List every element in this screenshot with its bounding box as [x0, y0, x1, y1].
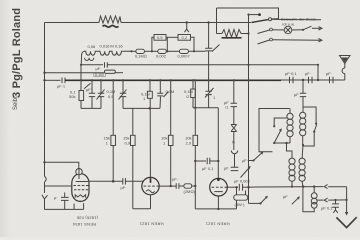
node top bus x208	[207, 21, 209, 23]
trimmer arrow top	[212, 45, 220, 52]
left vertical bus	[44, 23, 46, 176]
capacitor C tuning top bars	[205, 48, 212, 51]
label 0.1M boxed	[94, 73, 106, 76]
resistor R x112 box	[111, 135, 116, 145]
rail x134	[132, 108, 134, 135]
resistor box 0.2	[178, 35, 191, 41]
plug lower cup	[324, 198, 327, 202]
rail x208 from top bus	[208, 23, 210, 49]
arrow tip row2	[319, 27, 322, 30]
node bus x150	[149, 79, 151, 81]
resistor R x134 box	[131, 135, 136, 145]
tube V1 grid dashes row2	[74, 189, 88, 191]
wire chain 2	[166, 50, 179, 52]
wire node to cap	[335, 200, 337, 204]
rail x193 stub	[192, 80, 194, 88]
wire lamp to switch	[292, 29, 303, 31]
rail x161	[159, 80, 161, 93]
wire grid return to V1	[45, 185, 72, 187]
node y65 x81	[80, 64, 82, 66]
wire stub x248 top	[249, 14, 260, 16]
wire below R x196	[194, 146, 196, 209]
arrowhead arm T1 bottom	[260, 151, 263, 154]
wire field top lead	[313, 187, 315, 193]
arrowhead arm bottom	[265, 196, 268, 199]
band switch arm 1	[252, 20, 269, 23]
node T2 col1 y186	[291, 186, 293, 188]
contact top right switch	[315, 123, 317, 125]
node x248 y80	[247, 79, 249, 81]
contact circle 3	[270, 38, 273, 41]
node bus x169	[170, 79, 172, 81]
wire x303 down	[302, 80, 304, 93]
wire top bus right	[121, 22, 251, 24]
wire cathode line y209	[195, 208, 236, 210]
T1 switch arm	[273, 142, 275, 144]
node T2 link	[285, 142, 287, 144]
switch arm bottom left of T1	[252, 159, 254, 161]
node corner	[346, 199, 348, 201]
label 1826 flipped	[76, 216, 98, 221]
T1 winding column 1	[287, 109, 293, 144]
wire riser x318 to y65	[317, 65, 319, 80]
wire bottom loop	[303, 187, 314, 212]
transformer T2 winding column 1	[289, 155, 295, 187]
label REN 1821 flipped 2	[205, 222, 230, 227]
resistor R x193 box	[191, 89, 196, 98]
wire heater coil left stub	[217, 33, 223, 35]
wire ladder right riser	[191, 37, 195, 51]
node bus x92	[91, 79, 93, 81]
node x303 y186	[302, 185, 304, 187]
capacitor C x101	[98, 93, 104, 96]
rail x169	[170, 80, 172, 135]
node T1 col1 bottom	[285, 142, 287, 144]
capacitor C coupling V2-V3	[176, 183, 179, 189]
node x303 y145	[302, 144, 304, 146]
resistor R staple box	[234, 195, 248, 200]
field coil column	[311, 193, 317, 208]
jack cup x234	[231, 151, 237, 154]
switch dot row2	[302, 29, 304, 31]
speaker chevron	[336, 217, 356, 227]
contact circle 2	[270, 28, 273, 31]
T2 col1 top lead	[287, 143, 293, 155]
rail x218 anode V3	[217, 108, 219, 179]
inductor heater winding zigzag	[222, 30, 241, 38]
jack fork lower on left bus	[42, 189, 48, 209]
wire link y108 to x161	[123, 107, 160, 109]
tube V1 anode plate	[76, 181, 88, 183]
coil primary under-row	[85, 58, 94, 61]
wire bus y80 thin right	[281, 79, 289, 81]
tube V2 bottom lead	[133, 195, 151, 209]
wire T1 col1 bottom link	[274, 142, 290, 144]
node riser mid	[166, 50, 168, 52]
tube V3 cathode bar	[214, 191, 222, 193]
switch arm label arrow	[292, 197, 299, 204]
node bus x101	[100, 79, 102, 81]
wire below R x169	[170, 146, 172, 187]
node x218 y161	[217, 160, 219, 162]
capacitor C gridleak bars	[61, 193, 69, 210]
coil left hook	[81, 51, 84, 65]
node x249 y187	[247, 186, 249, 188]
wire main bus y80 thin left	[45, 79, 61, 81]
node bus x81	[80, 79, 82, 81]
wire after plug upper	[328, 186, 346, 188]
lamp pilot circle	[284, 26, 292, 34]
wire resistor to rail	[192, 185, 196, 187]
node x248 top	[247, 14, 249, 16]
wire chain end	[188, 50, 205, 52]
wire heater top rect	[217, 8, 279, 18]
wire heater coil right stub	[241, 33, 249, 35]
node coil out	[130, 50, 132, 52]
plug upper cup	[324, 185, 327, 189]
switch arm bottom middle	[259, 202, 261, 204]
node bus x161	[159, 79, 161, 81]
node y187 x236	[235, 186, 237, 188]
wire below C x161 to link	[159, 97, 162, 109]
node bus x303	[302, 79, 304, 81]
antenna triangle	[340, 56, 351, 64]
T1 winding column 2	[300, 112, 306, 145]
capacitor C series 1	[290, 77, 294, 84]
label RENS 1834 flipped	[72, 222, 96, 227]
wire row2 end	[312, 27, 321, 29]
fork x186	[185, 29, 189, 32]
tube V1 cathode	[75, 195, 85, 198]
capacitor C x208 bars	[205, 91, 211, 94]
resistor R 0.0007 box	[180, 49, 189, 53]
rail x234	[233, 80, 235, 103]
wire right switch top	[303, 107, 316, 124]
wire y73 right of resistor	[115, 72, 123, 74]
wire after plug lower	[328, 199, 346, 201]
arm diag T1 bottom	[254, 152, 263, 160]
node bus x186	[186, 21, 188, 23]
capacitor C coupling V1-V2	[123, 178, 126, 184]
wire below R x134	[132, 146, 134, 209]
wire link1 y108	[81, 107, 101, 109]
node x248 y33	[247, 32, 249, 34]
node riser x318	[317, 79, 319, 81]
node x196 y186	[194, 185, 196, 187]
capacitor C x123	[120, 93, 126, 96]
arrowhead trimmer	[248, 166, 251, 170]
tube V3 grid dashes	[212, 186, 228, 188]
wire V1 anode to junction	[88, 180, 123, 182]
wire below X x234	[233, 132, 235, 151]
capacitor C speaker	[332, 204, 339, 207]
arrowhead down	[345, 212, 348, 216]
node x196 y161	[194, 160, 196, 162]
tube V1 RENS1834 envelope	[72, 174, 89, 202]
arrow tip row3	[319, 39, 322, 42]
wire cup to cap	[234, 154, 236, 167]
tube V2 REN1821 envelope	[142, 177, 159, 194]
tube V3 REN1821 envelope	[210, 178, 228, 196]
node bus x208	[207, 79, 209, 81]
tube V1 legs	[74, 203, 84, 209]
node grid junction left	[43, 161, 45, 163]
tube V1 grid dashes	[73, 185, 88, 187]
node left bus y80	[43, 79, 45, 81]
wire chain	[144, 50, 157, 52]
var arrow x123	[119, 90, 127, 100]
trimmer arrow low	[241, 167, 251, 178]
resistor R x196 box	[193, 135, 198, 145]
wire bottom left horizontal	[44, 208, 83, 210]
rail x150 anode V2	[149, 80, 151, 92]
rail x112 long to V1 anode	[112, 80, 114, 181]
rail x92	[91, 80, 93, 93]
wire down right	[346, 187, 348, 213]
resistor R cathode box x81	[79, 91, 84, 101]
resistor X shape x234	[231, 125, 237, 132]
wire ladder left riser	[152, 37, 154, 51]
wire x249 below	[248, 187, 250, 203]
var arrow x161	[164, 92, 169, 98]
node left bus y73	[43, 72, 45, 74]
core bar heater winding	[222, 37, 242, 39]
coil winding dips	[84, 51, 131, 55]
wire row3	[272, 39, 320, 41]
wire arm feed	[249, 202, 261, 204]
tube V1 grid lead	[78, 169, 80, 180]
node field top	[313, 185, 315, 187]
wire below R x193	[192, 98, 194, 108]
tube V2 grid dashes	[144, 185, 160, 187]
wire grid feed V3 y161	[195, 160, 206, 162]
capacitor C x161	[157, 93, 163, 96]
paper grain	[0, 0, 1, 1]
wire grid line to V1 top cap	[45, 162, 79, 168]
node x248 y65	[247, 64, 249, 66]
wire y73 line	[45, 72, 105, 74]
capacitor C x234 low	[231, 167, 239, 170]
tube V3 bottom lead	[217, 196, 219, 209]
jack gap upper on left bus	[45, 175, 47, 189]
wire coil to resistor chain	[132, 50, 136, 52]
trimmer arrow x208	[205, 88, 214, 98]
capacitor C series 3	[330, 77, 334, 84]
wire below R x150	[149, 98, 151, 177]
rail x123	[122, 80, 124, 93]
switch arm right of T1	[313, 131, 315, 133]
wire ladder mid riser	[166, 37, 168, 51]
band switch arm 3	[258, 40, 270, 44]
antenna lead loop	[342, 68, 345, 74]
wire y65 line right	[108, 64, 319, 66]
wire rect bottom to contact1	[272, 18, 279, 20]
rail x81	[80, 65, 82, 91]
wire field tap	[317, 199, 324, 201]
wire cap to x218	[210, 160, 219, 162]
wire ladder mid	[166, 36, 178, 38]
wire V3 plate out	[227, 186, 238, 188]
wire staple to cathode line	[236, 200, 238, 209]
switch arm row2	[303, 26, 312, 30]
inductor L2 coupling winding	[103, 26, 119, 28]
wire main bus y80 thick	[65, 79, 281, 81]
wire below C x234	[233, 107, 235, 124]
inductor L1 antenna coil zigzag	[99, 16, 121, 23]
wire right switch bottom	[303, 132, 314, 146]
wire cap to V2 grid	[125, 180, 143, 182]
resistor R x169 box	[168, 135, 173, 145]
antenna lead lower	[344, 74, 346, 80]
transformer T1 box	[259, 109, 290, 152]
node stub end	[258, 13, 261, 16]
wire cap to grid resistor	[179, 185, 184, 187]
node cap spk	[334, 199, 336, 201]
lamp cross	[285, 27, 290, 32]
wire below tuning cap	[208, 51, 210, 91]
capacitor C x92	[89, 93, 95, 96]
node tube3 lead y209	[217, 208, 219, 210]
wire left drop to heater coil	[216, 8, 218, 34]
node x170 y186	[170, 185, 172, 187]
tube V1 top grid cap	[76, 169, 82, 175]
transformer T2 winding column 2	[299, 145, 305, 187]
capacitor C speaker coupling	[300, 93, 306, 96]
label REN 1821 flipped	[139, 222, 164, 227]
node bus x193	[192, 79, 194, 81]
node riser left	[151, 50, 153, 52]
capacitor C series 2	[309, 77, 313, 84]
wire x303 to T1 col2	[302, 97, 304, 112]
rail x101	[100, 80, 102, 93]
antenna lead	[344, 64, 346, 69]
wire y65 line left	[81, 64, 103, 66]
var arrow x101	[97, 90, 105, 100]
capacitor C x234 bars	[231, 103, 237, 106]
node bus x112	[112, 79, 114, 81]
wire below C x101	[100, 97, 102, 109]
resistor R grid V3 box	[184, 184, 192, 188]
fork open end	[333, 207, 337, 213]
rail x196	[194, 80, 196, 135]
resistor R anode V2 box	[147, 91, 152, 98]
arrowhead arm label	[297, 196, 300, 199]
resistor R 0.002 box	[158, 49, 167, 53]
node x113 y181	[112, 180, 115, 183]
tube V3 anode dot	[217, 178, 220, 181]
resistor R 0.1M box	[136, 49, 145, 53]
T1 contact	[273, 125, 275, 127]
resistor R volume box	[105, 70, 116, 73]
band switch arm 2	[258, 30, 270, 34]
capacitor C grid V3 inline	[207, 158, 210, 165]
tube V2 anode lead	[150, 178, 152, 183]
capacitor C tone	[239, 184, 242, 191]
wire anode line y187 to plug	[249, 186, 324, 189]
capacitor C1 inline bars	[62, 78, 65, 84]
wire cap to rail x249	[243, 186, 249, 188]
capacitor C y65 inline bars	[105, 62, 108, 67]
wire top bus left	[45, 22, 100, 24]
wire x249 in trim	[248, 162, 250, 188]
node riser right	[193, 50, 195, 52]
wire drop x186	[186, 23, 188, 30]
wire below C x208	[208, 95, 210, 108]
tube V2 cathode m	[146, 190, 154, 193]
contact circle 1	[269, 18, 272, 21]
var arrow x81 pot	[84, 83, 91, 89]
wire below R x81	[80, 101, 82, 109]
wire series cap chain	[289, 79, 345, 81]
node bus x234	[233, 79, 235, 81]
node x195 y107.7	[194, 107, 196, 109]
wire below C x92	[91, 97, 93, 109]
wire row1	[272, 18, 322, 20]
wire V2 plate out	[159, 185, 176, 187]
rail x248 long	[248, 15, 250, 162]
node bus x196	[194, 79, 196, 81]
wire link y107.7	[193, 107, 218, 109]
resistor R staple legs	[237, 187, 246, 195]
node riser top	[317, 64, 319, 66]
wire below C x123	[122, 97, 124, 109]
node link x150	[148, 107, 150, 109]
resistor box 0.5	[154, 35, 166, 41]
node bus x123	[122, 79, 124, 81]
wire row2 to lamp	[272, 29, 284, 31]
